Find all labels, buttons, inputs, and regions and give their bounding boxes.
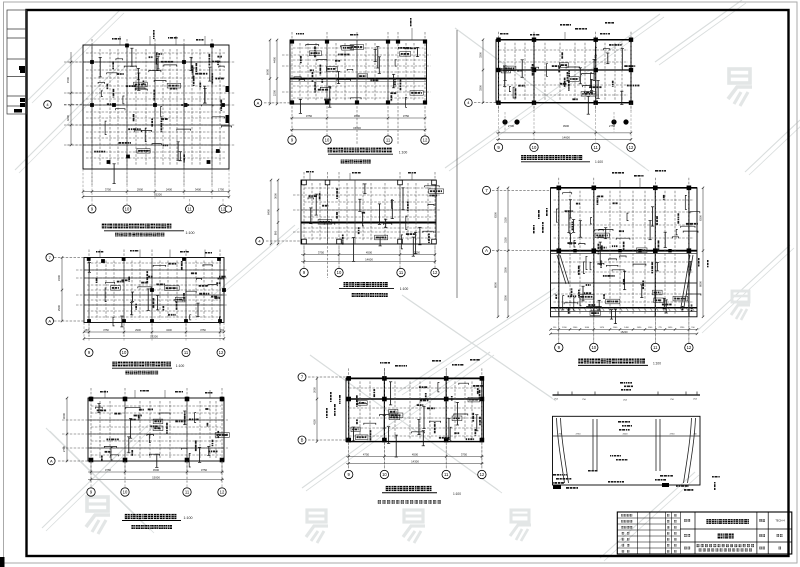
svg-text:3300: 3300 — [57, 274, 61, 281]
svg-text:3300: 3300 — [504, 267, 508, 273]
svg-text:3750: 3750 — [318, 251, 325, 255]
svg-text:3150: 3150 — [504, 237, 508, 243]
plan3 grid lines — [90, 388, 92, 473]
plan7 top annotation cluster — [560, 24, 562, 26]
svg-text:3750: 3750 — [201, 468, 208, 472]
svg-text:3750: 3750 — [403, 114, 410, 118]
svg-text:6400: 6400 — [267, 209, 271, 215]
plan6 thick beams — [346, 377, 484, 379]
plan1 bottom axis bubbles — [88, 205, 96, 213]
svg-text:A: A — [485, 248, 488, 253]
svg-text:12: 12 — [220, 490, 225, 495]
plan8 heavy beams — [551, 187, 698, 189]
svg-text:A: A — [50, 458, 53, 463]
svg-text:2750: 2750 — [609, 124, 616, 128]
svg-text:11: 11 — [594, 145, 599, 150]
plan4 outline walls — [290, 40, 427, 104]
svg-text:15000: 15000 — [353, 126, 361, 130]
svg-text:3750: 3750 — [103, 328, 109, 332]
svg-text:2050: 2050 — [313, 387, 317, 393]
plan3 outline walls — [88, 398, 224, 461]
title block project name — [706, 519, 711, 524]
plan1 inner beam lines — [83, 61, 229, 63]
title block right grid — [680, 528, 792, 530]
svg-text:3400: 3400 — [166, 328, 172, 332]
svg-text:1750: 1750 — [218, 187, 225, 191]
plan3 bottom dimensions — [88, 471, 224, 473]
svg-text:11: 11 — [444, 472, 449, 477]
plan6 left annotation cluster — [330, 392, 332, 394]
svg-text:3300: 3300 — [504, 295, 508, 301]
plan5 top stub annotations — [309, 173, 311, 180]
plan4 title — [328, 148, 333, 153]
svg-text:2500: 2500 — [623, 434, 629, 436]
svg-text:4200: 4200 — [66, 114, 70, 121]
plan3 left axis bubble — [58, 460, 88, 462]
svg-text:11: 11 — [187, 207, 192, 212]
plan4 column blobs — [290, 39, 294, 43]
plan4 bottom dimensions — [290, 117, 427, 119]
svg-text:3900: 3900 — [563, 124, 570, 128]
svg-text:3750: 3750 — [200, 328, 206, 332]
scan artifact bottom-left — [0, 557, 5, 567]
revision strip (left edge boxes) — [7, 10, 27, 114]
svg-text:3600: 3600 — [62, 412, 66, 419]
svg-text:2900: 2900 — [57, 304, 61, 311]
svg-text:1:100: 1:100 — [653, 362, 661, 366]
svg-text:TECH-4: TECH-4 — [775, 519, 785, 523]
title block fig name two lines — [697, 544, 700, 547]
svg-text:1470: 1470 — [600, 327, 605, 329]
plan7 bottom axis bubbles — [494, 143, 502, 151]
svg-text:725: 725 — [658, 327, 662, 329]
plan7 title — [521, 155, 526, 160]
plan6 grid lines — [348, 368, 350, 469]
plan8 hatch row bottom band — [554, 308, 557, 312]
svg-text:4500: 4500 — [153, 468, 160, 472]
plan9 bottom-right annotation cluster — [660, 475, 663, 477]
plan5 left axis bubble 4 — [266, 240, 301, 242]
plan9 main beam rectangle — [553, 416, 701, 485]
title block right labels — [684, 519, 687, 522]
plan4 thick beam line — [290, 78, 427, 80]
svg-text:14300: 14300 — [411, 460, 419, 464]
plan9 top annotation cluster — [620, 382, 623, 384]
plan2 left axis bubbles — [54, 257, 84, 259]
plan6 left axis bubbles — [308, 376, 346, 378]
svg-text:3750: 3750 — [306, 114, 313, 118]
svg-text:4500: 4500 — [412, 453, 419, 457]
plan1 left axis extension and dimension — [64, 104, 83, 106]
plan8 right dimension — [702, 188, 704, 317]
plan3 top stub annotations — [104, 390, 106, 398]
plan7 column blobs — [496, 38, 500, 42]
plan1 grid lines — [91, 39, 93, 185]
plan6 inner dashed — [359, 381, 361, 438]
svg-text:2750: 2750 — [670, 434, 676, 436]
plan8 title — [578, 359, 583, 364]
svg-text:1:100: 1:100 — [595, 160, 603, 164]
plan8 left annotation column — [538, 210, 540, 213]
svg-text:750: 750 — [670, 399, 674, 401]
svg-text:1500: 1500 — [613, 327, 618, 329]
plan5 grid lines — [303, 172, 305, 278]
plan5 outline walls — [301, 180, 436, 244]
svg-text:6300: 6300 — [494, 212, 498, 218]
svg-text:10: 10 — [337, 270, 342, 275]
svg-text:A: A — [257, 100, 260, 105]
watermark yi glyphs — [729, 69, 750, 83]
svg-text:12: 12 — [687, 345, 692, 350]
svg-text:12: 12 — [629, 145, 634, 150]
plan5 hollow column squares — [302, 180, 307, 185]
svg-text:254: 254 — [693, 399, 697, 401]
plan9 interior annotation texts — [618, 421, 621, 423]
plan1 outline walls — [83, 45, 229, 169]
plan2 left dimension — [61, 258, 63, 322]
svg-text:6600: 6600 — [699, 281, 703, 287]
plan1 column blobs — [90, 103, 94, 107]
svg-text:12: 12 — [480, 472, 485, 477]
plan6 top annotation cluster — [380, 362, 382, 364]
plan3 annotations — [156, 454, 158, 467]
svg-text:15200: 15200 — [620, 330, 628, 334]
plan2 column blobs — [87, 319, 91, 323]
svg-text:1500: 1500 — [573, 327, 578, 329]
plan7 bottom dimensions — [496, 132, 631, 134]
plan8 outline — [551, 188, 698, 317]
svg-text:1:100: 1:100 — [186, 231, 195, 235]
svg-text:254: 254 — [554, 399, 558, 401]
svg-text:1200: 1200 — [562, 327, 567, 329]
plan7 outline — [496, 40, 631, 103]
plan5 annotations — [391, 200, 393, 209]
svg-text:14600: 14600 — [365, 258, 373, 262]
svg-text:11: 11 — [399, 270, 404, 275]
svg-text:4500: 4500 — [354, 114, 361, 118]
svg-text:750: 750 — [582, 399, 586, 401]
plan8 left axis bubbles — [492, 189, 551, 191]
plan9 right small marks — [712, 476, 714, 478]
svg-text:3300: 3300 — [479, 85, 483, 91]
plan5 bottom dimensions — [301, 254, 436, 256]
svg-text:2750: 2750 — [576, 434, 582, 436]
svg-text:254: 254 — [623, 400, 627, 402]
plan6 column blobs — [346, 376, 351, 381]
svg-text:150: 150 — [84, 328, 89, 332]
svg-text:2400: 2400 — [166, 187, 173, 191]
svg-text:3150: 3150 — [504, 217, 508, 223]
plan4 top stub annotations — [411, 28, 413, 40]
plan2 bottom dimensions — [84, 331, 224, 333]
svg-text:12: 12 — [219, 350, 224, 355]
plan5 title — [344, 282, 349, 287]
plan5 left dimensions — [277, 180, 279, 244]
svg-text:1000: 1000 — [585, 327, 590, 329]
title block left texts — [621, 514, 623, 516]
fold separation line — [456, 30, 458, 298]
svg-text:3400: 3400 — [195, 187, 202, 191]
svg-text:3750: 3750 — [105, 468, 112, 472]
watermark diagonal lines — [28, 10, 120, 100]
plan9 stirrup pairs — [592, 419, 594, 471]
plan6 bottom axis bubbles — [345, 470, 353, 478]
svg-text:A: A — [48, 318, 51, 323]
title block outer rect — [617, 512, 792, 554]
plan9 center line — [553, 435, 701, 437]
plan8 column blobs — [557, 186, 562, 191]
svg-text:14600: 14600 — [562, 136, 570, 140]
plan4 left dimensions — [276, 40, 278, 104]
svg-text:4400: 4400 — [273, 56, 277, 63]
svg-text:11: 11 — [386, 138, 391, 143]
svg-text:11: 11 — [653, 345, 658, 350]
svg-text:15200: 15200 — [154, 193, 162, 197]
svg-text:1230: 1230 — [680, 327, 685, 329]
plan6 title — [386, 486, 391, 491]
plan2 bottom axis bubbles — [85, 349, 93, 357]
svg-text:150: 150 — [220, 328, 225, 332]
svg-text:800: 800 — [274, 230, 278, 235]
svg-text:3750: 3750 — [461, 453, 468, 457]
plan4 grid lines — [291, 32, 293, 144]
plan9 top bar line — [553, 394, 701, 396]
svg-text:250: 250 — [693, 434, 697, 436]
svg-text:2700: 2700 — [508, 124, 515, 128]
plan3 bottom axis bubbles — [87, 488, 95, 496]
svg-text:1500: 1500 — [66, 76, 70, 83]
plan8 left dimensions — [497, 188, 499, 317]
plan8 bottom axis bubbles — [555, 343, 563, 351]
plan7 pile dots — [503, 120, 508, 125]
svg-text:B: B — [301, 438, 304, 443]
plan8 grid — [558, 178, 560, 345]
svg-text:15200: 15200 — [150, 335, 158, 339]
plan6 outline — [346, 378, 484, 441]
plan1 top stub annotations — [119, 36, 121, 45]
plan6 left dimension — [316, 378, 318, 441]
svg-text:4750: 4750 — [363, 453, 370, 457]
svg-text:2900: 2900 — [137, 187, 144, 191]
plan2 title — [112, 362, 117, 367]
svg-text:1:100: 1:100 — [400, 287, 409, 291]
svg-text:10: 10 — [122, 350, 127, 355]
svg-text:4150: 4150 — [313, 419, 317, 425]
plan1 title — [102, 224, 107, 229]
plan2 outline walls — [84, 258, 224, 323]
svg-text:11: 11 — [185, 490, 190, 495]
plan2 grid lines — [88, 250, 90, 337]
svg-text:10: 10 — [591, 345, 596, 350]
svg-text:10: 10 — [125, 207, 130, 212]
plan8 annotations — [649, 221, 651, 240]
title block left grid — [617, 517, 680, 519]
plan2 top stub annotations — [99, 250, 101, 258]
plan5 bottom axis bubbles — [300, 268, 308, 276]
svg-text:150: 150 — [553, 327, 557, 329]
plan6 bottom dimensions — [346, 456, 484, 458]
plan4 left axis bubble A — [264, 102, 290, 104]
plan7 grid — [498, 32, 500, 111]
svg-text:3750: 3750 — [105, 187, 112, 191]
plan7 beams — [496, 69, 631, 71]
plan3 column blobs — [89, 458, 94, 463]
plan8 bottom dimensions — [551, 328, 698, 330]
plan2 annotations — [168, 314, 170, 316]
svg-text:1:100: 1:100 — [184, 516, 193, 520]
svg-text:3750: 3750 — [414, 251, 421, 255]
plan9 bent bars right — [688, 418, 696, 483]
svg-text:2900: 2900 — [135, 328, 141, 332]
plan9 bottom-center annotation — [608, 481, 610, 483]
plan5 thick beam line — [301, 222, 436, 224]
plan4 bottom axis bubbles — [288, 136, 296, 144]
svg-text:1450: 1450 — [668, 327, 673, 329]
svg-text:15000: 15000 — [152, 476, 160, 480]
svg-text:3000: 3000 — [274, 193, 278, 199]
title block drawing name — [718, 534, 723, 539]
svg-text:1430: 1430 — [637, 327, 642, 329]
title block right small cells — [759, 519, 762, 522]
plan4 annotations — [318, 89, 321, 91]
svg-text:2700: 2700 — [62, 445, 66, 452]
plan9 bent bars left — [557, 418, 565, 483]
svg-text:6600: 6600 — [494, 282, 498, 288]
plan8 slanted braces — [557, 255, 566, 284]
svg-text:2200: 2200 — [273, 89, 277, 96]
svg-text:11: 11 — [184, 350, 189, 355]
plan9 bottom-left annotation cluster — [553, 474, 556, 476]
svg-text:150: 150 — [691, 327, 695, 329]
plan7 annotations — [560, 83, 562, 85]
svg-text:12: 12 — [423, 138, 428, 143]
svg-text:1100: 1100 — [648, 327, 653, 329]
plan1 annotations — [220, 100, 222, 103]
plan7 left dimension — [482, 40, 484, 103]
svg-text:10: 10 — [325, 138, 330, 143]
plan1 left axis bubble 4 — [44, 101, 52, 109]
revision strip text marks — [19, 66, 25, 70]
plan7 left axis bubble 4 — [474, 102, 496, 104]
svg-text:4500: 4500 — [366, 251, 373, 255]
plan1 bottom dimension lines — [83, 191, 229, 193]
svg-text:1:100: 1:100 — [453, 492, 461, 496]
plan6 annotations — [389, 413, 403, 418]
svg-text:10: 10 — [382, 472, 387, 477]
plan3 left dimension — [66, 398, 68, 461]
svg-text:12: 12 — [433, 270, 438, 275]
svg-text:3300: 3300 — [479, 52, 483, 58]
svg-text:10: 10 — [532, 145, 537, 150]
svg-text:1400: 1400 — [624, 327, 629, 329]
plan8 top annotation cluster — [612, 172, 614, 174]
plan1 right edge heavy marks — [226, 115, 230, 123]
svg-text:10: 10 — [123, 490, 128, 495]
svg-text:6300: 6300 — [699, 215, 703, 221]
svg-text:1:100: 1:100 — [176, 364, 185, 368]
svg-text:1:100: 1:100 — [399, 151, 408, 155]
svg-text:6600: 6600 — [266, 68, 270, 75]
plan3 title — [125, 514, 130, 519]
